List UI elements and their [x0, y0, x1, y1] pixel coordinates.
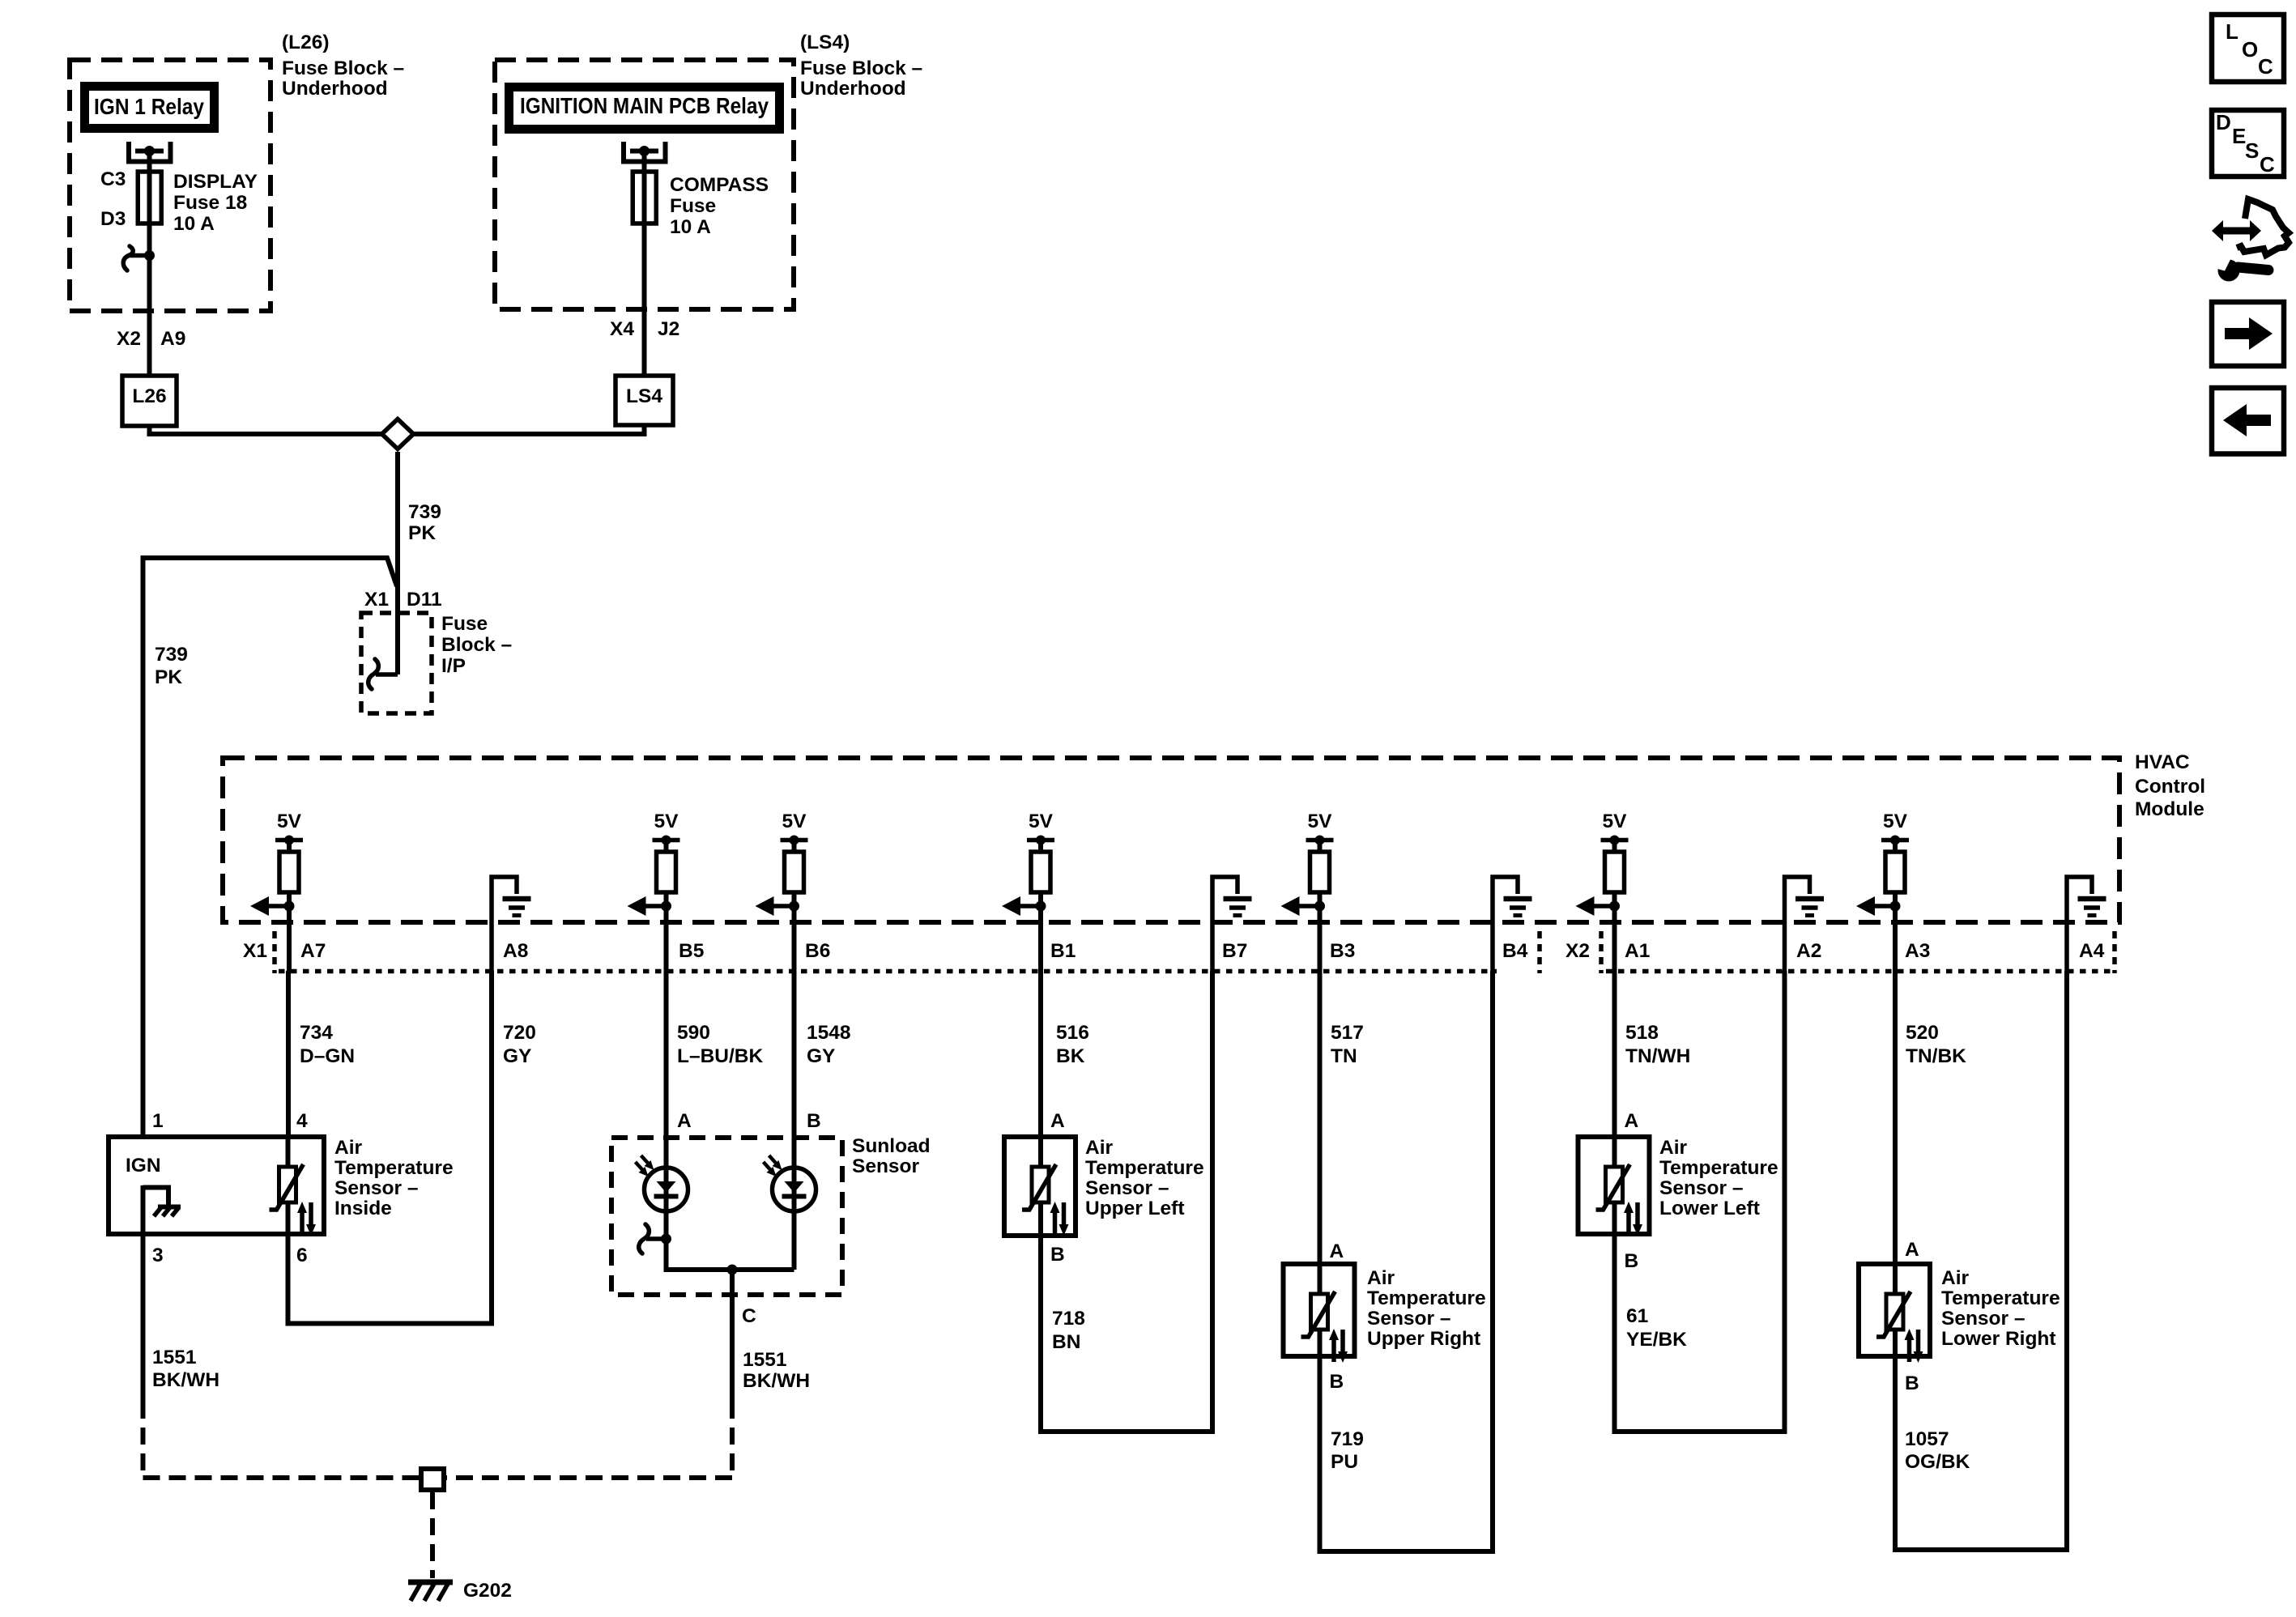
connector pin row dotted line X2 side [1606, 969, 2115, 974]
svg-text:BN: BN [1052, 1331, 1080, 1353]
svg-text:5V: 5V [277, 811, 302, 832]
wire B6 to connector [792, 906, 797, 971]
svg-text:DISPLAY: DISPLAY [173, 171, 258, 193]
svg-text:OG/BK: OG/BK [1905, 1451, 1970, 1473]
wire A7 connector to sensor pin 4 [286, 971, 291, 1137]
label J2 [658, 318, 679, 340]
pin label B (air temperature sensor upper right) [1330, 1371, 1344, 1393]
photodiode (sunload right) [764, 1155, 816, 1211]
pull-up resistor (A3 channel) [1885, 852, 1905, 906]
svg-text:B: B [1625, 1250, 1639, 1272]
label D3 [100, 208, 126, 230]
label Fuse Block - Underhood (left) [282, 57, 404, 100]
pin label B (sunload) [807, 1110, 821, 1132]
terminal hook + junction (sunload left) [639, 1224, 671, 1253]
wire label 517 TN [1331, 1022, 1364, 1067]
fuse block I/P dashed box [361, 613, 432, 713]
signal arrow (A1 channel) [1576, 896, 1621, 916]
5V label (B5 channel) [654, 811, 679, 832]
connector pin label B6 [805, 940, 830, 962]
svg-text:Air: Air [1941, 1267, 1970, 1289]
svg-text:X2: X2 [117, 328, 141, 350]
pin label 1 [152, 1110, 164, 1132]
svg-text:TN/WH: TN/WH [1625, 1045, 1690, 1067]
svg-text:Sensor –: Sensor – [1085, 1177, 1169, 1199]
svg-text:A2: A2 [1796, 940, 1821, 962]
wire B3 to upper right sensor [1318, 971, 1323, 1264]
svg-text:1551: 1551 [743, 1349, 787, 1371]
pull-up resistor (B1 channel) [1031, 852, 1050, 906]
svg-text:A3: A3 [1905, 940, 1930, 962]
label A9 [160, 328, 185, 350]
svg-text:Sensor –: Sensor – [1367, 1308, 1451, 1330]
svg-text:Fuse Block –: Fuse Block – [800, 57, 922, 79]
relay IGN 1 Relay label box [85, 87, 215, 129]
relay contact (ignition main pcb relay output) [624, 142, 666, 172]
thermistor (air temperature sensor upper right) [1301, 1291, 1348, 1363]
icon LOC box [2212, 15, 2284, 82]
photodiode (sunload left) [636, 1155, 688, 1211]
svg-text:C: C [742, 1305, 756, 1327]
svg-text:10 A: 10 A [173, 213, 215, 235]
svg-text:BK/WH: BK/WH [743, 1370, 810, 1392]
svg-text:720: 720 [503, 1022, 536, 1044]
label X4 [610, 318, 634, 340]
wire A8 ground return from inside sensor loop [288, 971, 492, 1324]
connector pin label B3 [1330, 940, 1355, 962]
svg-text:BK: BK [1056, 1045, 1085, 1067]
ground (module internal, B7 channel) [1212, 877, 1252, 971]
svg-text:Control: Control [2135, 776, 2205, 798]
pull-up resistor (A7 channel) [279, 852, 299, 906]
svg-text:Fuse Block –: Fuse Block – [282, 57, 404, 79]
svg-text:518: 518 [1625, 1022, 1659, 1044]
svg-text:5V: 5V [1308, 811, 1333, 832]
air temperature sensor lower left box [1578, 1137, 1650, 1234]
svg-text:Lower Left: Lower Left [1659, 1198, 1760, 1219]
terminal hook at fuse output [123, 246, 149, 270]
wire lower right sensor B to A4 [1895, 971, 2067, 1550]
signal arrow (B3 channel) [1281, 896, 1326, 916]
pin label A (sunload) [677, 1110, 692, 1132]
pull-up resistor (A1 channel) [1605, 852, 1625, 906]
label D11 [407, 589, 442, 611]
svg-text:B: B [1905, 1372, 1919, 1394]
svg-text:719: 719 [1331, 1428, 1364, 1450]
label C3 [100, 168, 126, 190]
connector pin label A2 [1796, 940, 1821, 962]
svg-text:Underhood: Underhood [800, 78, 906, 100]
connector pin label A1 [1625, 940, 1650, 962]
icon next page (right arrow) box [2212, 302, 2284, 366]
5V label (A3 channel) [1883, 811, 1908, 832]
connector pin row dotted line X1 side [279, 969, 1497, 974]
svg-text:X1: X1 [243, 940, 267, 962]
pin label A (air temperature sensor upper left) [1050, 1110, 1065, 1132]
wire LS4 to splice [414, 425, 645, 434]
svg-text:GY: GY [807, 1045, 835, 1067]
signal arrow (B6 channel) [756, 896, 800, 916]
ground (module internal, A8 channel) [492, 877, 531, 971]
svg-text:520: 520 [1906, 1022, 1939, 1044]
wire label 718 BN [1052, 1308, 1085, 1353]
svg-text:Fuse: Fuse [441, 613, 488, 635]
svg-text:C3: C3 [100, 168, 126, 190]
svg-text:Block –: Block – [441, 634, 512, 656]
svg-text:B6: B6 [805, 940, 830, 962]
svg-text:B: B [1050, 1244, 1065, 1266]
signal arrow (B1 channel) [1002, 896, 1046, 916]
svg-text:J2: J2 [658, 318, 679, 340]
label Sunload Sensor [852, 1135, 931, 1177]
svg-text:B7: B7 [1222, 940, 1247, 962]
branch wire 739 PK to IGN [143, 558, 398, 1137]
label Air Temperature Sensor (air temperature sensor lower right) [1941, 1267, 2060, 1350]
svg-text:Temperature: Temperature [1941, 1287, 2060, 1309]
svg-text:TN: TN [1331, 1045, 1357, 1067]
svg-text:GY: GY [503, 1045, 531, 1067]
HVAC control module dashed box [223, 758, 2119, 922]
connector pin label X1 [243, 940, 267, 962]
connector pin label B1 [1050, 940, 1076, 962]
svg-text:IGNITION MAIN PCB Relay: IGNITION MAIN PCB Relay [520, 93, 769, 118]
label (L26) [282, 32, 330, 53]
label X1 (fuse block ip) [364, 589, 389, 611]
label (LS4) [800, 32, 850, 53]
label 1551 BK/WH (sunload) [743, 1349, 810, 1392]
wire lower left sensor B to A2 [1615, 971, 1785, 1432]
svg-text:D11: D11 [407, 589, 442, 611]
pin label A (air temperature sensor lower left) [1625, 1110, 1639, 1132]
svg-text:A7: A7 [300, 940, 326, 962]
svg-text:O: O [2242, 37, 2258, 62]
svg-text:D3: D3 [100, 208, 126, 230]
label 1551 BK/WH (left) [152, 1347, 219, 1391]
svg-text:516: 516 [1056, 1022, 1089, 1044]
label G202 [463, 1580, 512, 1602]
wire B6 to sunload [792, 971, 797, 1270]
5V supply bar (B6 channel) [781, 836, 808, 853]
svg-text:IGN: IGN [126, 1155, 161, 1177]
svg-text:A: A [1625, 1110, 1639, 1132]
5V label (A7 channel) [277, 811, 302, 832]
chassis ground inside IGN [143, 1188, 181, 1217]
svg-text:Temperature: Temperature [1659, 1157, 1778, 1179]
svg-text:1551: 1551 [152, 1347, 197, 1368]
wire label 61 YE/BK [1626, 1305, 1687, 1351]
wire A1 to lower left sensor [1612, 971, 1617, 1137]
connector pin label X2 [1565, 940, 1590, 962]
splice S (1551) [421, 1469, 444, 1490]
svg-text:A8: A8 [503, 940, 528, 962]
svg-text:1548: 1548 [807, 1022, 851, 1044]
wire pin4 through box [286, 1137, 291, 1234]
wire 739 PK down from splice [395, 452, 400, 674]
svg-text:739: 739 [408, 501, 441, 523]
wire upper right sensor B to B4 [1320, 971, 1493, 1551]
svg-text:Upper Left: Upper Left [1085, 1198, 1185, 1219]
signal arrow (A3 channel) [1856, 896, 1901, 916]
svg-text:Sensor –: Sensor – [334, 1177, 419, 1199]
connector LS4 box [616, 376, 673, 425]
air temperature sensor upper left box [1004, 1137, 1076, 1236]
svg-text:PU: PU [1331, 1451, 1358, 1473]
svg-text:B: B [807, 1110, 821, 1132]
svg-text:C: C [2258, 54, 2273, 79]
svg-text:739: 739 [155, 644, 188, 666]
wire through air temperature sensor upper left [1038, 1137, 1043, 1236]
pin label C [742, 1305, 756, 1327]
svg-text:(L26): (L26) [282, 32, 330, 53]
svg-text:E: E [2232, 124, 2246, 148]
svg-text:Sensor –: Sensor – [1941, 1308, 2026, 1330]
svg-text:Temperature: Temperature [1085, 1157, 1204, 1179]
wire A3 to connector [1893, 906, 1898, 971]
IGN / air temperature sensor inside box [109, 1137, 324, 1234]
svg-text:B4: B4 [1502, 940, 1528, 962]
ground G202 [408, 1582, 453, 1601]
fuse block underhood (LS4) dashed box [495, 60, 794, 309]
wire label 590 L–BU/BK [677, 1022, 763, 1067]
pull-up resistor (B3 channel) [1310, 852, 1330, 906]
svg-text:5V: 5V [654, 811, 679, 832]
svg-text:TN/BK: TN/BK [1906, 1045, 1966, 1067]
fuse COMPASS Fuse 10A [633, 172, 656, 376]
svg-text:A: A [1050, 1110, 1065, 1132]
relay IGNITION MAIN PCB Relay label box [509, 87, 780, 130]
pull-up resistor (B6 channel) [785, 852, 804, 906]
label Air Temperature Sensor (air temperature sensor upper left) [1085, 1137, 1204, 1219]
label HVAC Control Module [2135, 751, 2205, 820]
icon wrench/diagnostic pointer [2212, 199, 2289, 282]
wire IGN pin3 down [141, 1234, 146, 1402]
wire B3 to connector [1318, 906, 1323, 971]
svg-text:I/P: I/P [441, 655, 466, 677]
svg-text:Sensor –: Sensor – [1659, 1177, 1744, 1199]
svg-text:L26: L26 [132, 385, 166, 407]
svg-text:PK: PK [408, 522, 436, 544]
svg-text:B3: B3 [1330, 940, 1355, 962]
ground (module internal, A2 channel) [1785, 877, 1825, 971]
svg-text:D: D [2216, 110, 2231, 134]
wire through air temperature sensor lower left [1612, 1137, 1617, 1234]
svg-text:D–GN: D–GN [300, 1045, 355, 1067]
sunload bottom bus [667, 1239, 794, 1275]
5V label (A1 channel) [1603, 811, 1628, 832]
dashed wire splice to G202 [430, 1492, 435, 1578]
wire sunload C down [730, 1270, 735, 1402]
pull-up resistor (B5 channel) [657, 852, 676, 906]
svg-text:5V: 5V [1029, 811, 1054, 832]
pin label 6 [296, 1245, 308, 1266]
wire pin3 inside IGN box [141, 1185, 146, 1234]
svg-text:COMPASS: COMPASS [670, 174, 769, 196]
svg-text:X2: X2 [1565, 940, 1590, 962]
wire label 1057 OG/BK [1905, 1428, 1970, 1473]
wire B5 to connector [664, 906, 669, 971]
wire A7 to connector [287, 906, 292, 971]
wire label 520 TN/BK [1906, 1022, 1966, 1067]
fuse block underhood (L26) dashed box [70, 60, 270, 311]
pin label A (air temperature sensor lower right) [1905, 1239, 1919, 1261]
svg-text:C: C [2260, 152, 2275, 177]
svg-text:718: 718 [1052, 1308, 1085, 1330]
wire fuse to L26 [147, 256, 152, 377]
svg-text:BK/WH: BK/WH [152, 1369, 219, 1391]
svg-text:B1: B1 [1050, 940, 1076, 962]
connector pin label B4 [1502, 940, 1528, 962]
connector separator after B4 [1537, 931, 1542, 973]
svg-text:6: 6 [296, 1245, 308, 1266]
connector L26 box [122, 376, 177, 426]
svg-text:A1: A1 [1625, 940, 1650, 962]
terminal hook inside fuse block I/P [368, 659, 398, 689]
pin label A (air temperature sensor upper right) [1330, 1240, 1344, 1262]
5V supply bar (B1 channel) [1027, 836, 1054, 853]
wire A1 to connector [1612, 906, 1617, 971]
svg-text:590: 590 [677, 1022, 710, 1044]
wire B5 to sunload [664, 971, 669, 1239]
svg-text:1: 1 [152, 1110, 164, 1132]
svg-text:A: A [1905, 1239, 1919, 1261]
connector pin label A4 [2079, 940, 2105, 962]
label Air Temperature Sensor - Inside [334, 1137, 454, 1219]
5V supply bar (B5 channel) [653, 836, 680, 853]
thermistor (air temperature sensor lower left) [1596, 1164, 1643, 1236]
connector separator after X1 [272, 931, 277, 973]
svg-text:Air: Air [1659, 1137, 1688, 1159]
pin label B (air temperature sensor lower right) [1905, 1372, 1919, 1394]
svg-text:LS4: LS4 [626, 385, 662, 407]
pin label 3 [152, 1245, 164, 1266]
svg-text:734: 734 [300, 1022, 333, 1044]
pin label B (air temperature sensor lower left) [1625, 1250, 1639, 1272]
connector separator after A4 [2112, 931, 2117, 973]
wire B1 to connector [1038, 906, 1043, 971]
label 739 PK (upper) [408, 501, 441, 544]
5V supply bar (A3 channel) [1881, 836, 1909, 853]
svg-text:A9: A9 [160, 328, 185, 350]
connector pin label B5 [679, 940, 704, 962]
connector pin label B7 [1222, 940, 1247, 962]
svg-text:A: A [1330, 1240, 1344, 1262]
dashed wire sunload C to splice [446, 1402, 732, 1478]
svg-text:G202: G202 [463, 1580, 512, 1602]
wire label 518 TN/WH [1625, 1022, 1690, 1067]
pin label B (air temperature sensor upper left) [1050, 1244, 1065, 1266]
wire label 734 D–GN [300, 1022, 355, 1067]
svg-text:Module: Module [2135, 798, 2204, 820]
air temperature sensor lower right box [1859, 1264, 1930, 1356]
svg-text:61: 61 [1626, 1305, 1648, 1327]
svg-text:A4: A4 [2079, 940, 2105, 962]
svg-text:517: 517 [1331, 1022, 1364, 1044]
connector pin label A8 [503, 940, 528, 962]
svg-text:Fuse 18: Fuse 18 [173, 192, 247, 214]
label COMPASS Fuse 10 A [670, 174, 769, 238]
wire A3 to lower right sensor [1893, 971, 1898, 1264]
svg-text:Upper Right: Upper Right [1367, 1328, 1480, 1350]
thermistor (inside sensor) [270, 1164, 317, 1236]
label DISPLAY Fuse 18 10 A [173, 171, 258, 235]
svg-text:10 A: 10 A [670, 216, 711, 238]
5V label (B3 channel) [1308, 811, 1333, 832]
svg-text:Inside: Inside [334, 1198, 392, 1219]
svg-text:A: A [677, 1110, 692, 1132]
svg-text:(LS4): (LS4) [800, 32, 850, 53]
svg-text:X4: X4 [610, 318, 634, 340]
svg-text:Fuse: Fuse [670, 195, 716, 217]
5V label (B1 channel) [1029, 811, 1054, 832]
svg-text:Air: Air [334, 1137, 363, 1159]
svg-text:4: 4 [296, 1110, 308, 1132]
wire through air temperature sensor upper right [1318, 1264, 1323, 1356]
5V supply bar (B3 channel) [1306, 836, 1334, 853]
connector pin label A3 [1905, 940, 1930, 962]
signal arrow (A7 channel) [250, 896, 295, 916]
label 739 PK (left) [155, 644, 188, 688]
svg-text:Temperature: Temperature [334, 1157, 454, 1179]
svg-text:5V: 5V [1603, 811, 1628, 832]
svg-text:5V: 5V [782, 811, 807, 832]
thermistor (air temperature sensor upper left) [1022, 1164, 1069, 1236]
svg-text:YE/BK: YE/BK [1626, 1329, 1687, 1351]
signal arrow (B5 channel) [628, 896, 672, 916]
wire label 1548 GY [807, 1022, 851, 1067]
label Air Temperature Sensor (air temperature sensor upper right) [1367, 1267, 1486, 1350]
wire label 720 GY [503, 1022, 536, 1067]
svg-text:Temperature: Temperature [1367, 1287, 1486, 1309]
icon DESC box [2212, 110, 2284, 177]
label Air Temperature Sensor (air temperature sensor lower left) [1659, 1137, 1778, 1219]
icon previous page (left arrow) box [2212, 388, 2284, 454]
svg-text:Sunload: Sunload [852, 1135, 931, 1157]
svg-text:B: B [1330, 1371, 1344, 1393]
svg-text:S: S [2245, 138, 2259, 163]
relay contact (IGN 1 relay output) [129, 142, 171, 172]
label Fuse Block - I/P [441, 613, 512, 677]
svg-text:L–BU/BK: L–BU/BK [677, 1045, 763, 1067]
thermistor (air temperature sensor lower right) [1876, 1291, 1923, 1363]
ground (module internal, A4 channel) [2067, 877, 2106, 971]
fuse DISPLAY Fuse 18 10A [138, 172, 161, 253]
wire label 719 PU [1331, 1428, 1364, 1473]
label X2 [117, 328, 141, 350]
connector separator before A1 [1599, 931, 1604, 973]
air temperature sensor upper right box [1284, 1264, 1355, 1356]
svg-text:Underhood: Underhood [282, 78, 388, 100]
junction dot below fuse [144, 250, 155, 261]
5V supply bar (A1 channel) [1601, 836, 1629, 853]
svg-text:Air: Air [1367, 1267, 1395, 1289]
svg-text:1057: 1057 [1905, 1428, 1949, 1450]
svg-text:IGN 1 Relay: IGN 1 Relay [94, 94, 204, 119]
sunload sensor dashed box [611, 1138, 842, 1295]
pin label 4 [296, 1110, 308, 1132]
svg-text:Lower Right: Lower Right [1941, 1328, 2056, 1350]
svg-text:Air: Air [1085, 1137, 1114, 1159]
svg-text:L: L [2226, 19, 2238, 44]
svg-text:HVAC: HVAC [2135, 751, 2190, 773]
svg-text:Sensor: Sensor [852, 1155, 920, 1177]
svg-text:B5: B5 [679, 940, 704, 962]
wire through air temperature sensor lower right [1893, 1264, 1898, 1356]
connector pin label A7 [300, 940, 326, 962]
5V label (B6 channel) [782, 811, 807, 832]
svg-text:PK: PK [155, 666, 182, 688]
ground (module internal, B4 channel) [1493, 877, 1532, 971]
svg-text:5V: 5V [1883, 811, 1908, 832]
